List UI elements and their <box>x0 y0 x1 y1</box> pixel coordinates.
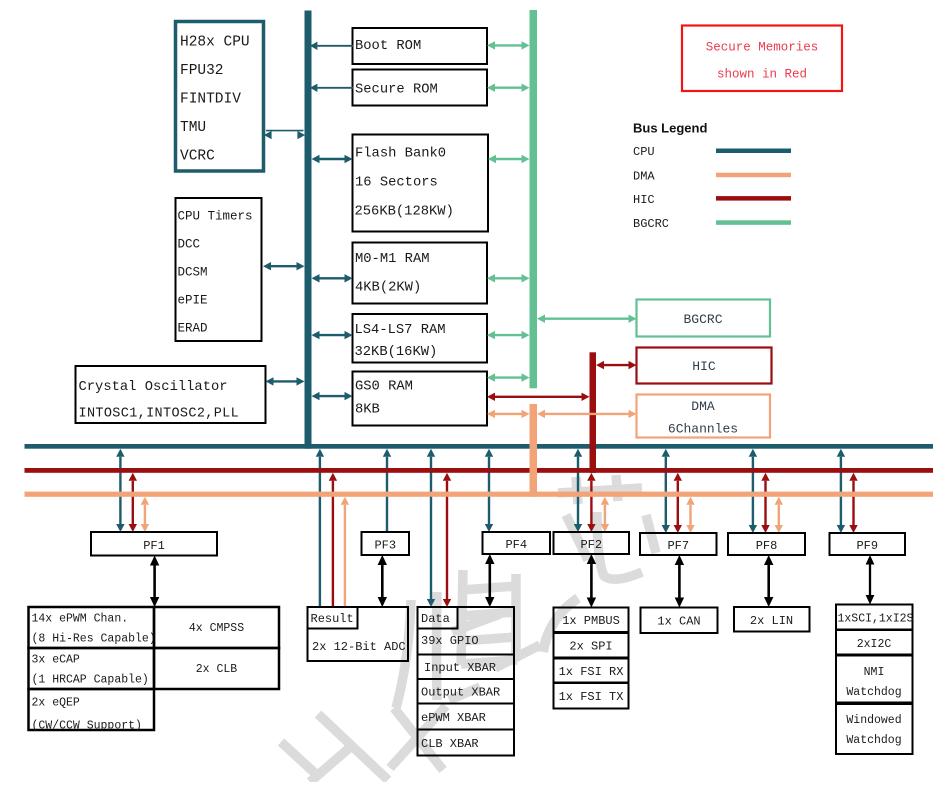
svg-text:16 Sectors: 16 Sectors <box>355 176 438 191</box>
Boot ROM box <box>353 28 488 64</box>
svg-text:ePWM XBAR: ePWM XBAR <box>421 711 486 725</box>
svg-text:BGCRC: BGCRC <box>633 217 669 231</box>
table cell CLB <box>154 648 279 689</box>
svg-text:Crystal Oscillator: Crystal Oscillator <box>79 379 228 395</box>
table cell CMPSS <box>154 607 279 648</box>
svg-text:39x GPIO: 39x GPIO <box>421 634 479 648</box>
ePWM XBAR box <box>418 704 515 730</box>
svg-text:PF4: PF4 <box>505 538 527 552</box>
arrow BGCRC bus to BGCRC box <box>537 315 637 323</box>
CPU Timers box <box>176 198 262 341</box>
svg-text:Input XBAR: Input XBAR <box>424 661 496 675</box>
svg-text:14x ePWM Chan.: 14x ePWM Chan. <box>32 613 129 626</box>
CLB XBAR box <box>418 730 515 756</box>
svg-text:2x SPI: 2x SPI <box>569 640 612 654</box>
M0-M1 RAM box <box>353 243 488 304</box>
svg-text:2x LIN: 2x LIN <box>750 614 793 628</box>
svg-text:8KB: 8KB <box>355 403 380 418</box>
svg-text:Output XBAR: Output XBAR <box>421 686 500 700</box>
DMA vertical bus <box>530 404 538 497</box>
arrow CPU bus to Data GPIO box <box>427 449 435 607</box>
svg-text:M0-M1 RAM: M0-M1 RAM <box>355 252 430 267</box>
svg-text:FPU32: FPU32 <box>180 63 224 79</box>
GS0 RAM box <box>353 372 488 426</box>
svg-text:Bus Legend: Bus Legend <box>633 121 707 136</box>
svg-text:DCC: DCC <box>178 238 201 252</box>
svg-text:(8 Hi-Res Capable): (8 Hi-Res Capable) <box>32 633 156 646</box>
arrow DMA bus to PF2 <box>601 497 609 532</box>
arrow HIC bus to PF2 <box>587 473 595 532</box>
arrow M0-M1 RAM to CPU bus <box>312 274 353 282</box>
arrow CPU bus to PF4 <box>485 449 493 532</box>
table cell eCAP <box>29 648 155 689</box>
svg-text:4KB(2KW): 4KB(2KW) <box>355 280 421 296</box>
Secure Memories note box <box>682 26 842 92</box>
PMBUS box <box>554 608 629 633</box>
arrow M0-M1 RAM to BGCRC bus <box>487 274 530 282</box>
table cell ePWM <box>29 607 155 648</box>
svg-text:PF3: PF3 <box>374 539 396 553</box>
arrow PF4 to Data GPIO box <box>485 554 494 607</box>
arrow CPU bus to PF9 <box>837 449 845 533</box>
svg-text:1xSCI,1xI2S: 1xSCI,1xI2S <box>838 613 914 626</box>
svg-text:PF8: PF8 <box>756 539 778 553</box>
svg-text:TMU: TMU <box>180 120 206 136</box>
svg-text:Watchdog: Watchdog <box>846 686 901 699</box>
arrow HIC bus to PF8 <box>761 473 769 533</box>
peripheral frame box PF4 <box>483 532 551 554</box>
ADC Result label box <box>308 607 358 629</box>
arrow CPU Timers to CPU bus <box>263 262 305 270</box>
svg-text:H28x CPU: H28x CPU <box>180 35 250 51</box>
arrow PF7 to CAN box <box>675 555 684 608</box>
BGCRC vertical bus <box>530 10 538 388</box>
svg-text:NMI: NMI <box>864 666 885 679</box>
ADC box <box>308 607 409 661</box>
arrow GS0 RAM to CPU bus <box>312 392 353 400</box>
peripheral frame box PF1 <box>91 532 217 556</box>
svg-text:6Channles: 6Channles <box>668 422 738 437</box>
svg-text:PF1: PF1 <box>143 539 165 553</box>
svg-text:PF2: PF2 <box>580 538 602 552</box>
svg-text:(1 HRCAP Capable): (1 HRCAP Capable) <box>32 674 149 687</box>
wire HIC bus to ADC Result <box>329 473 337 607</box>
arrow PF2 to PMBUS box <box>587 554 596 608</box>
LIN box <box>734 607 810 632</box>
arrow Flash Bank0 to CPU bus <box>312 155 353 163</box>
svg-text:LS4-LS7 RAM: LS4-LS7 RAM <box>355 323 446 338</box>
HIC vertical bus <box>590 352 597 473</box>
svg-text:shown in Red: shown in Red <box>717 68 807 82</box>
svg-text:ERAD: ERAD <box>178 322 208 336</box>
peripheral frame box PF7 <box>640 533 717 555</box>
arrow PF8 to LIN box <box>764 555 773 607</box>
svg-text:Secure ROM: Secure ROM <box>355 83 438 98</box>
table cell eQEP <box>29 689 155 730</box>
svg-text:ePIE: ePIE <box>178 294 208 308</box>
DMA horizontal bus <box>25 492 934 497</box>
svg-text:(CW/CCW Support): (CW/CCW Support) <box>32 720 142 733</box>
arrow GS0 RAM to BGCRC bus <box>487 373 530 381</box>
svg-text:FINTDIV: FINTDIV <box>180 92 241 108</box>
arrow GS0 RAM to HIC bus <box>487 393 590 401</box>
I2C box <box>836 630 913 655</box>
CPU horizontal bus <box>25 444 934 449</box>
svg-text:Windowed: Windowed <box>846 714 901 727</box>
Output XBAR box <box>418 679 515 704</box>
LS4-LS7 RAM box <box>353 314 488 363</box>
arrow Secure ROM to BGCRC bus <box>487 84 530 92</box>
svg-text:CPU Timers: CPU Timers <box>178 210 253 224</box>
FSI RX box <box>554 659 629 683</box>
svg-text:Result: Result <box>311 612 354 626</box>
FSI TX box <box>554 683 629 709</box>
CPU vertical bus <box>305 11 312 449</box>
Crystal Oscillator box <box>76 366 266 423</box>
svg-text:2x CLB: 2x CLB <box>196 663 238 676</box>
CPU core box H28x <box>176 22 264 172</box>
Secure ROM box <box>353 70 488 106</box>
svg-text:HIC: HIC <box>633 193 655 207</box>
svg-text:Watchdog: Watchdog <box>846 734 901 747</box>
arrow HIC bus to PF1 <box>129 473 137 532</box>
svg-text:2x 12-Bit ADC: 2x 12-Bit ADC <box>312 640 406 654</box>
svg-text:1x CAN: 1x CAN <box>657 615 700 629</box>
arrow PF3 to ADC box <box>378 555 387 607</box>
arrow Flash Bank0 to BGCRC bus <box>488 155 530 163</box>
Input XBAR box <box>418 655 515 680</box>
arrow PF9 to SCI stack <box>866 555 875 605</box>
svg-text:DMA: DMA <box>633 169 655 183</box>
svg-text:PF7: PF7 <box>667 539 689 553</box>
svg-text:256KB(128KW): 256KB(128KW) <box>355 204 454 220</box>
arrow LS4-LS7 RAM to BGCRC bus <box>487 331 530 339</box>
SCI I2S box <box>836 605 913 630</box>
svg-text:2x eQEP: 2x eQEP <box>32 697 80 710</box>
BGCRC box <box>637 300 771 337</box>
arrow HIC bus to PF9 <box>849 473 857 533</box>
watermark: faint gray diagonal logo text <box>281 475 656 782</box>
arrow LS4-LS7 RAM to CPU bus <box>312 331 353 339</box>
svg-text:CPU: CPU <box>633 145 655 159</box>
peripheral frame box PF3 <box>362 532 410 555</box>
arrow Boot ROM to BGCRC bus <box>487 41 530 49</box>
arrow Secure ROM to CPU bus <box>310 84 353 92</box>
svg-text:3x eCAP: 3x eCAP <box>32 654 80 667</box>
arrow CPU bus to PF2 <box>574 449 582 532</box>
arrow H28x CPU to CPU bus (thin, offset heads) <box>264 131 305 140</box>
CAN box <box>641 608 718 634</box>
peripheral frame box PF9 <box>830 533 906 555</box>
arrow Boot ROM to CPU bus <box>310 42 353 50</box>
svg-text:Secure Memories: Secure Memories <box>706 41 819 55</box>
arrow GS0 RAM to DMA bus <box>487 410 530 418</box>
svg-text:Boot ROM: Boot ROM <box>355 39 421 54</box>
svg-text:Flash Bank0: Flash Bank0 <box>355 146 446 162</box>
wire CPU bus to PF3 <box>383 449 391 532</box>
peripheral frame box PF8 <box>728 533 805 555</box>
svg-text:Data: Data <box>421 612 450 626</box>
arrow CPU bus to PF8 <box>749 449 757 533</box>
Windowed Watchdog box <box>836 704 913 754</box>
svg-text:BGCRC: BGCRC <box>683 312 722 327</box>
svg-text:GS0 RAM: GS0 RAM <box>355 380 413 395</box>
arrow Crystal Oscillator to CPU bus <box>266 377 305 385</box>
arrow DMA bus to PF7 <box>686 497 694 533</box>
svg-text:2xI2C: 2xI2C <box>857 638 892 651</box>
arrow HIC bus to Data GPIO box <box>443 473 451 607</box>
NMI Watchdog box <box>836 656 913 703</box>
arrow DMA bus to PF8 <box>775 497 783 533</box>
svg-text:1x PMBUS: 1x PMBUS <box>562 614 620 628</box>
peripheral frame box PF2 <box>554 532 630 554</box>
HIC horizontal bus <box>25 468 934 473</box>
Flash Bank0 box <box>353 135 489 232</box>
DMA box <box>637 395 771 438</box>
arrow CPU bus to PF1 <box>116 449 124 532</box>
GPIO Data label box <box>418 607 458 629</box>
wire DMA bus to ADC Result <box>341 497 349 607</box>
svg-text:DMA: DMA <box>691 399 715 414</box>
svg-text:VCRC: VCRC <box>180 149 215 165</box>
wire CPU bus to ADC Result <box>316 449 324 607</box>
arrow HIC bus to HIC box <box>596 361 637 369</box>
svg-text:1x FSI TX: 1x FSI TX <box>559 690 624 704</box>
svg-text:1x FSI RX: 1x FSI RX <box>559 665 624 679</box>
svg-text:32KB(16KW): 32KB(16KW) <box>355 344 438 360</box>
arrow CPU bus to PF7 <box>662 449 670 533</box>
arrow DMA bus to DMA box <box>537 410 637 418</box>
GPIO box <box>418 607 515 655</box>
arrow PF1 to ePWM table <box>150 556 159 608</box>
svg-text:4x CMPSS: 4x CMPSS <box>189 622 244 635</box>
svg-text:INTOSC1,INTOSC2,PLL: INTOSC1,INTOSC2,PLL <box>79 407 240 422</box>
arrow DMA bus to PF1 <box>141 497 149 532</box>
SPI box <box>554 633 629 658</box>
svg-text:HIC: HIC <box>692 359 716 374</box>
HIC box <box>637 348 772 384</box>
svg-text:DCSM: DCSM <box>178 266 208 280</box>
svg-text:CLB XBAR: CLB XBAR <box>421 737 479 751</box>
arrow HIC bus to PF7 <box>674 473 682 533</box>
svg-text:PF9: PF9 <box>856 539 878 553</box>
